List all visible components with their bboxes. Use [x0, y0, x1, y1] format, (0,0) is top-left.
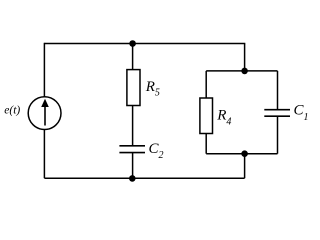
wire right lower [244, 154, 246, 179]
svg-text:R4: R4 [216, 107, 231, 127]
node dot parallel bottom [241, 150, 248, 157]
wire left upper [43, 43, 45, 97]
source U1 e(t) circle [28, 97, 61, 130]
wire R5 to C2 [132, 106, 134, 146]
wire parallel top [206, 70, 277, 72]
wire right upper [244, 44, 246, 71]
resistor R5 body [127, 70, 140, 106]
wire R4 lead bottom [205, 134, 207, 154]
resistor R4 body [200, 98, 213, 134]
wire C1 lead bottom [277, 116, 279, 154]
wire R4 lead top [205, 71, 207, 98]
wire C1 lead top [277, 71, 279, 110]
source arrow head [41, 99, 49, 107]
wire left lower [43, 129, 45, 178]
wire R5 branch top [132, 44, 134, 70]
node dot bottom (C2 branch / bottom bus) [129, 175, 136, 182]
wire bottom bus [44, 177, 244, 179]
svg-text:C2: C2 [149, 141, 164, 161]
svg-text:R5: R5 [145, 79, 160, 99]
wire top bus [44, 43, 245, 45]
wire parallel bottom [206, 153, 277, 155]
capacitor C1 plates [264, 110, 290, 117]
node dot top (R5 branch / top bus) [129, 40, 136, 47]
node dot parallel top [241, 68, 248, 75]
source arrow shaft [44, 106, 46, 126]
wire C2 to bottom [132, 153, 134, 179]
capacitor C2 plates [119, 146, 145, 153]
svg-text:C1: C1 [294, 103, 309, 123]
svg-text:e(t): e(t) [4, 105, 20, 117]
